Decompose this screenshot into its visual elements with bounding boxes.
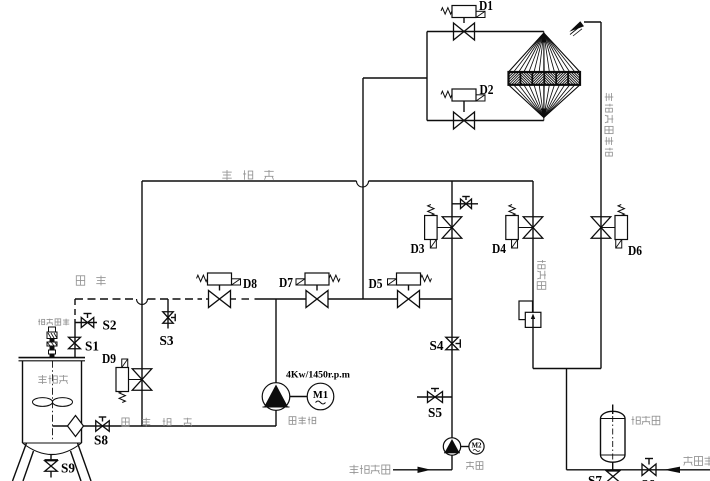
wire spray slurry line H3 y=426 xyxy=(53,425,277,427)
valve D7 solenoid valve on feed line xyxy=(306,291,328,308)
svg-text:S5: S5 xyxy=(428,405,442,420)
wire water-clean header H1 y=181 xyxy=(142,180,357,182)
wire pump discharge V11 x=276 xyxy=(275,299,277,383)
tank legs xyxy=(13,443,27,481)
svg-text:D1: D1 xyxy=(479,0,493,13)
svg-text:S8: S8 xyxy=(94,433,108,448)
pressure regulator on air purge branch xyxy=(519,301,533,320)
wire process/return line H2 y=299 (dashed left part) xyxy=(75,298,137,300)
water pump motor M2 xyxy=(461,446,469,448)
wire blowoff riser V5 x=601 xyxy=(600,22,602,369)
wire riser V2 x=363 (spray feed up) xyxy=(362,78,364,299)
svg-text:M2: M2 xyxy=(471,442,482,450)
label 水清洗 (water cleaning) xyxy=(222,170,231,180)
valve S5 stub on water riser xyxy=(417,396,452,398)
svg-text:D7: D7 xyxy=(279,275,293,290)
valve S4 on water riser xyxy=(446,337,459,350)
valve D2 solenoid valve bottom spray branch xyxy=(454,112,475,129)
coated strip hatched band xyxy=(509,72,581,85)
wire riser V1 x=142 (clean-water branch down to D9) xyxy=(141,181,143,426)
agitator propeller xyxy=(33,398,53,407)
svg-text:S9: S9 xyxy=(61,461,75,476)
valve D3 solenoid valve on water riser xyxy=(442,217,462,239)
wire bottom air line H6 y=469.8 xyxy=(567,469,710,471)
wire return drop V9 x=75 to tank top xyxy=(74,299,76,323)
label 回流 (return) xyxy=(76,276,84,285)
valve S2 stub off return drop xyxy=(75,322,97,324)
spray nozzle fan assembly (strip being coated) xyxy=(509,33,581,118)
wire bottom water inlet H5 y=469.8 xyxy=(393,469,452,471)
pump motor M1 xyxy=(290,396,307,398)
svg-text:D2: D2 xyxy=(480,82,494,97)
spray nozzle arrowheads xyxy=(541,33,547,43)
wire spray bottom branch H8 y=120.5 xyxy=(427,120,544,122)
valve S8 tank outlet valve xyxy=(96,421,110,432)
wire regulator-to-riser H4 y=368.5 xyxy=(533,368,601,370)
valve D5 solenoid valve on feed line xyxy=(398,291,420,308)
label 工厂水源 (factory water source) xyxy=(350,465,359,475)
label 水泵 (water pump) xyxy=(466,461,474,469)
svg-text:M1: M1 xyxy=(313,390,328,401)
label 氧化铁皮吹扫 (scale blow-off, vertical) xyxy=(605,93,614,101)
label 喷涂浆料 (spray slurry) xyxy=(122,418,129,426)
valve D1 solenoid valve top spray branch xyxy=(454,23,475,40)
flow arrow on air inlet (pointing left) xyxy=(664,467,680,473)
svg-text:D9: D9 xyxy=(102,351,116,366)
svg-text:D5: D5 xyxy=(369,276,383,291)
valve S6 on air inlet xyxy=(642,464,656,476)
svg-text:S3: S3 xyxy=(160,333,174,348)
label 储气罐 (air tank) xyxy=(631,416,640,425)
slurry tank 储料罐 xyxy=(19,357,86,359)
blow-off arrow at top right xyxy=(584,21,601,23)
label 搅拌电机 (agitator motor) xyxy=(38,319,44,325)
wire feed top H9 y=78 xyxy=(363,77,427,79)
wire air drop V6 x=566.5 xyxy=(566,369,568,470)
svg-text:D4: D4 xyxy=(492,241,506,256)
svg-text:S6: S6 xyxy=(641,477,655,481)
label 柱塞泵 (plunger pump) xyxy=(289,417,296,425)
valve D6 solenoid valve on blowoff riser xyxy=(591,217,611,239)
label 工厂气源 (factory air source) xyxy=(684,456,693,465)
filter diamond on tank outlet xyxy=(68,416,84,437)
wire air branch V4 x=533 (D4 air purge) xyxy=(532,181,534,369)
svg-text:S2: S2 xyxy=(103,318,117,333)
svg-text:D8: D8 xyxy=(243,276,257,291)
label 气吹扫 (air purge, vertical) xyxy=(537,260,546,269)
svg-text:S1: S1 xyxy=(85,339,99,354)
svg-text:4Kw/1450r.p.m: 4Kw/1450r.p.m xyxy=(286,370,350,381)
svg-text:S7: S7 xyxy=(588,473,602,481)
air tank 储气罐 xyxy=(612,405,614,415)
wire riser V3 x=452 (pump water line) xyxy=(451,181,453,438)
svg-text:D6: D6 xyxy=(628,243,642,258)
water pump 水泵 xyxy=(443,438,460,455)
agitator motor on tank xyxy=(49,327,56,332)
svg-text:D3: D3 xyxy=(411,241,425,256)
label 储料罐 (slurry tank) xyxy=(38,375,47,384)
needle vent valve above D3 xyxy=(452,203,478,205)
valve S3 drain stub off return line xyxy=(167,299,169,329)
valve D9 solenoid valve on clean-water branch xyxy=(132,369,152,391)
svg-text:S4: S4 xyxy=(430,338,444,353)
agitator shaft xyxy=(52,361,54,441)
flow arrow on water inlet (pointing right) xyxy=(418,467,432,473)
valve S9 tank drain valve xyxy=(50,455,52,461)
valve D8 solenoid valve on return line xyxy=(209,291,231,308)
valve S7 air tank drain (cut off at edge) xyxy=(612,470,614,471)
plunger pump 柱塞泵 xyxy=(262,383,290,411)
wire spray loop left V7 x=427 xyxy=(426,32,428,121)
wire spray top branch H7 y=31.5 xyxy=(427,31,544,33)
valve D4 solenoid valve on air purge branch xyxy=(523,217,543,239)
valve S1 on tank top line xyxy=(69,337,81,349)
